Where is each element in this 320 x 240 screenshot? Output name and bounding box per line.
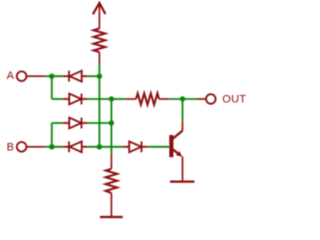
diode D1 xyxy=(63,71,88,82)
junction node A branch xyxy=(49,74,54,79)
svg-text:A: A xyxy=(7,70,15,82)
resistor R1 xyxy=(94,29,106,64)
ground under emitter xyxy=(170,181,194,183)
wire B branch to D4 xyxy=(52,122,63,124)
wire D4 to node Q xyxy=(88,122,112,124)
output port OUT xyxy=(196,94,246,106)
diode D2 xyxy=(63,94,88,105)
junction OUT collector xyxy=(180,96,185,101)
junction node A-P xyxy=(97,74,102,79)
wire R2 to OUT junction xyxy=(170,98,196,100)
junction node Q top xyxy=(109,96,114,101)
junction node B branch xyxy=(49,144,54,149)
emitter wire to ground xyxy=(182,157,184,181)
svg-text:B: B xyxy=(7,141,15,153)
wire D3 to D5 xyxy=(88,146,123,148)
wire A branch to D2 xyxy=(52,98,63,100)
wire A branch vertical xyxy=(51,76,53,99)
resistor R2 xyxy=(126,93,170,104)
transistor Q1 xyxy=(169,122,182,158)
diode D5 xyxy=(123,141,148,152)
wire node P vertical (R1 bottom to B row) xyxy=(98,63,100,147)
junction node Q D4 xyxy=(109,120,114,125)
wire B branch vertical xyxy=(51,123,53,147)
wire D1 to node P xyxy=(88,75,100,77)
junction node B-P xyxy=(97,144,102,149)
input port A xyxy=(7,70,46,82)
wire D2 to node Q xyxy=(88,98,112,100)
wire D5 to base xyxy=(148,146,170,148)
wire A port to D1 xyxy=(46,75,63,77)
wire B port to D3 xyxy=(46,146,63,148)
input port B xyxy=(7,141,46,153)
svg-text:OUT: OUT xyxy=(222,94,246,106)
wire collector to OUT row xyxy=(182,99,184,122)
power arrow VCC xyxy=(93,3,106,29)
resistor R3 xyxy=(106,154,118,216)
wire node Q to R2 xyxy=(111,98,125,100)
wire node Q vertical xyxy=(110,99,112,155)
diode D4 xyxy=(63,118,88,129)
ground under R3 xyxy=(100,216,123,218)
diode D3 xyxy=(63,141,88,152)
